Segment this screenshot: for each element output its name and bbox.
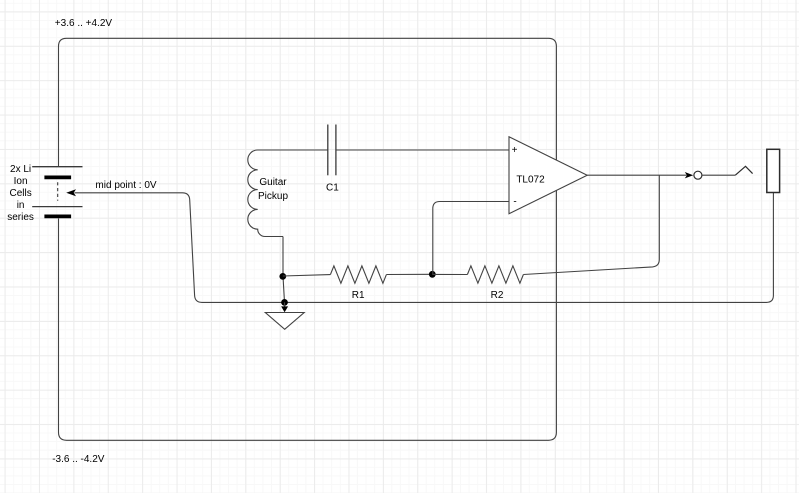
wire node B to R2 [432, 273, 467, 275]
svg-text:+: + [512, 145, 518, 156]
inductor L1 guitar pickup coil [248, 150, 283, 237]
jack J1 body [767, 149, 780, 192]
jack J1 tip spring contact [735, 166, 752, 175]
junction node B (R1 / R2 / inverting input) [429, 271, 436, 278]
svg-text:+3.6 .. +4.2V: +3.6 .. +4.2V [55, 18, 113, 29]
arrowhead at battery mid point [66, 189, 76, 196]
svg-text:2x Li: 2x Li [10, 164, 31, 175]
wire feedback R2 to op-amp output [523, 175, 659, 274]
svg-text:-: - [513, 197, 516, 208]
wire power loop rounded rectangle (+rail top, -rail bottom) [59, 38, 557, 440]
label Guitar Pickup [258, 177, 288, 202]
wire R1 to node B [386, 273, 432, 275]
ground symbol [265, 313, 304, 330]
resistor R2 [467, 266, 523, 283]
svg-text:series: series [7, 212, 34, 223]
svg-text:mid point : 0V: mid point : 0V [95, 180, 156, 191]
op-amp U1 TL072 [509, 137, 587, 214]
svg-text:in: in [17, 200, 25, 211]
output port circle [694, 171, 702, 179]
wire mid point tap from battery to ground rail [75, 193, 285, 303]
svg-text:Cells: Cells [9, 188, 31, 199]
wire coil top to C1 [283, 149, 328, 151]
svg-text:-3.6 .. -4.2V: -3.6 .. -4.2V [52, 454, 105, 465]
wire op-amp output [587, 174, 686, 176]
wire node A to R1 [283, 275, 331, 276]
svg-text:C1: C1 [326, 183, 339, 194]
junction node C (mid point / ground) [281, 299, 288, 306]
resistor R1 [330, 266, 386, 283]
capacitor C1 [328, 125, 336, 176]
wire ground rail from node C to output jack sleeve [285, 193, 774, 303]
svg-text:Ion: Ion [14, 176, 28, 187]
wire node C to ground symbol [284, 302, 286, 307]
junction node A (coil / R1) [279, 273, 286, 280]
svg-text:R2: R2 [491, 290, 504, 301]
arrowhead at output port [685, 172, 693, 178]
wire port to jack tip contact [702, 174, 735, 176]
svg-text:R1: R1 [352, 290, 365, 301]
wire C1 to op-amp non-inverting input [336, 149, 509, 151]
svg-text:Guitar: Guitar [259, 177, 287, 188]
battery label 2x Li Ion Cells in series [7, 164, 34, 223]
wire coil bottom down to node A [283, 237, 285, 303]
svg-text:TL072: TL072 [516, 175, 545, 186]
wire node B up to op-amp inverting input [433, 202, 509, 275]
battery B1 2x Li Ion cells in series [32, 167, 82, 217]
svg-text:Pickup: Pickup [258, 191, 288, 202]
arrowhead into ground [281, 306, 288, 312]
